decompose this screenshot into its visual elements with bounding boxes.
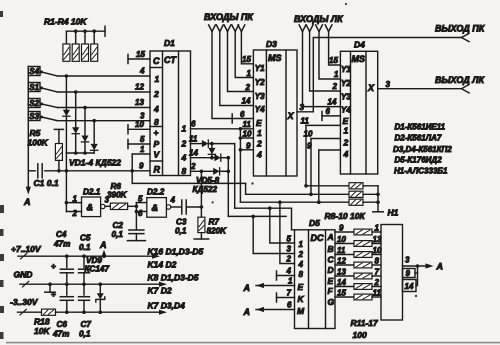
resistor R7 xyxy=(200,171,202,217)
svg-text:S1: S1 xyxy=(29,83,39,92)
wire run b xyxy=(246,193,349,195)
svg-text:0,1: 0,1 xyxy=(79,330,91,339)
resistor R3 xyxy=(84,31,86,44)
wire rail GND xyxy=(20,283,160,285)
wire D5 pin6 to node A xyxy=(256,309,295,311)
svg-text:2: 2 xyxy=(153,89,159,99)
svg-text:X: X xyxy=(287,111,295,121)
svg-text:Y1: Y1 xyxy=(255,64,265,73)
svg-text:10: 10 xyxy=(337,235,346,244)
svg-text:+: + xyxy=(51,289,56,299)
svg-text:F: F xyxy=(328,286,334,296)
svg-text:8: 8 xyxy=(299,270,304,279)
diode VD8 xyxy=(213,168,219,175)
wire vertical V1 xyxy=(227,158,229,217)
svg-text:D: D xyxy=(328,265,334,275)
svg-text:13: 13 xyxy=(135,98,144,107)
input LK line 2 xyxy=(306,25,309,32)
pin 14 box H1 xyxy=(403,280,417,292)
wire S1 row to D1 pin12 xyxy=(58,91,151,93)
svg-text:C: C xyxy=(153,56,160,66)
svg-text:K: K xyxy=(298,294,305,304)
svg-text:14: 14 xyxy=(405,282,414,291)
svg-text:10: 10 xyxy=(135,120,144,129)
switch S3 xyxy=(28,112,40,121)
switch S4 xyxy=(28,67,40,76)
svg-text:+7..10V: +7..10V xyxy=(11,244,42,254)
diode VD6 vertical xyxy=(211,144,213,148)
svg-text:G: G xyxy=(328,297,335,307)
wire diode column to D2.1 xyxy=(65,153,67,212)
svg-text:R8-10 10К: R8-10 10К xyxy=(325,211,366,221)
svg-text:1: 1 xyxy=(299,240,304,249)
diode VD9 zener xyxy=(99,284,101,293)
svg-text:A: A xyxy=(23,197,31,207)
svg-text:14: 14 xyxy=(189,149,198,158)
svg-text:6: 6 xyxy=(326,107,331,116)
capacitor C1 xyxy=(28,170,35,172)
svg-text:Y2: Y2 xyxy=(341,79,351,88)
wire D5 pin5 feed xyxy=(270,208,295,243)
svg-text:1: 1 xyxy=(182,124,187,134)
wire D5 pin3 feed xyxy=(253,216,294,253)
svg-text:Н1-АЛС333Б1: Н1-АЛС333Б1 xyxy=(394,167,448,176)
svg-text:C2: C2 xyxy=(113,221,124,230)
svg-text:4: 4 xyxy=(343,149,349,159)
svg-text:9: 9 xyxy=(406,269,411,278)
wire D1 out4 pin14 row xyxy=(191,157,215,159)
wire D4 X output pin3 to VYHOD LK xyxy=(378,88,462,90)
resistor R2 xyxy=(75,31,77,44)
svg-text:D1: D1 xyxy=(164,38,175,48)
svg-text:1: 1 xyxy=(247,69,252,78)
svg-text:6: 6 xyxy=(191,120,196,129)
op IC D3 block xyxy=(253,50,297,176)
wire R6 to D2.2 xyxy=(128,205,137,207)
input PK line 1 xyxy=(209,25,212,32)
svg-text:VD5-8: VD5-8 xyxy=(196,176,220,185)
resistor R11 xyxy=(335,231,354,233)
svg-text:0,1: 0,1 xyxy=(112,230,124,239)
wire D1 out2 pin11 row xyxy=(191,143,202,145)
pin 4 stub D5 xyxy=(277,275,295,277)
svg-text:E: E xyxy=(298,282,304,292)
svg-text:A: A xyxy=(243,307,251,317)
svg-text:1: 1 xyxy=(73,195,78,204)
svg-text:8: 8 xyxy=(375,257,380,266)
svg-text:D4: D4 xyxy=(354,40,365,50)
svg-text:1: 1 xyxy=(334,70,339,79)
svg-text:5: 5 xyxy=(140,135,145,144)
pin 15 stub D1 xyxy=(128,58,150,60)
svg-text:12: 12 xyxy=(337,257,346,266)
svg-text:5: 5 xyxy=(138,195,143,204)
svg-text:2: 2 xyxy=(245,83,251,92)
wire vertical D4 pin10 drop xyxy=(310,139,312,195)
wire run a xyxy=(306,185,349,187)
svg-text:D2.2: D2.2 xyxy=(147,188,165,197)
svg-text:+: + xyxy=(51,261,56,271)
svg-text:C3: C3 xyxy=(176,218,187,227)
svg-text:D3,D4-К561КП2: D3,D4-К561КП2 xyxy=(393,145,452,154)
wire S3 row to D1 pin3 xyxy=(58,120,151,122)
resistor R14 xyxy=(335,264,354,266)
svg-text:C7: C7 xyxy=(81,320,92,329)
svg-text:R5: R5 xyxy=(30,128,41,138)
resistor R13 xyxy=(335,254,354,256)
svg-text:4: 4 xyxy=(153,104,159,114)
resistor R15 xyxy=(335,275,354,277)
svg-text:12: 12 xyxy=(135,83,144,92)
wire D3 X output pin3 xyxy=(297,111,313,113)
capacitor C5 xyxy=(83,256,85,267)
diode VD5 xyxy=(202,140,208,147)
wire run e xyxy=(228,215,286,217)
svg-text:D1-К561ИЕ11: D1-К561ИЕ11 xyxy=(395,123,446,132)
svg-text:2: 2 xyxy=(190,162,196,171)
svg-text:8: 8 xyxy=(154,117,159,127)
svg-text:R11-17: R11-17 xyxy=(351,318,380,328)
wire D2.1 out xyxy=(105,205,110,207)
wire run d xyxy=(235,207,292,209)
svg-text:7: 7 xyxy=(375,268,380,277)
svg-text:6: 6 xyxy=(138,209,143,218)
node A down-arrow xyxy=(27,171,29,189)
resistor R10 xyxy=(349,199,363,205)
resistor R12 xyxy=(335,243,354,245)
svg-text:M: M xyxy=(297,306,305,316)
svg-text:2: 2 xyxy=(374,278,380,287)
svg-text:E: E xyxy=(256,118,262,128)
svg-text:14: 14 xyxy=(242,97,251,106)
svg-text:-3..30V: -3..30V xyxy=(10,297,39,307)
switch S2 xyxy=(28,99,40,108)
input LK line 3 xyxy=(316,25,319,32)
pin 10 stub D1 xyxy=(128,128,150,130)
svg-text:CT: CT xyxy=(164,55,177,65)
svg-text:3: 3 xyxy=(386,80,391,89)
wire D2.1 inputs xyxy=(66,202,81,204)
svg-text:11: 11 xyxy=(243,120,252,129)
svg-text:MS: MS xyxy=(268,53,282,63)
svg-text:8: 8 xyxy=(182,166,187,176)
svg-text:1: 1 xyxy=(375,224,380,233)
wire D1 out8 pin2 row xyxy=(191,170,214,172)
svg-text:C: C xyxy=(328,255,335,265)
wire diode common xyxy=(66,152,94,154)
op display H1 block xyxy=(381,225,403,321)
svg-text:КС147: КС147 xyxy=(85,265,110,274)
op gate D2.2 xyxy=(147,198,167,218)
svg-text:3: 3 xyxy=(287,245,292,254)
wire rail -3..30V with R18 xyxy=(18,311,42,313)
svg-text:E: E xyxy=(328,276,334,286)
svg-text:1: 1 xyxy=(155,74,160,84)
wire VYHOD PK from D3 xyxy=(313,38,461,112)
svg-text:C1 0.1: C1 0.1 xyxy=(34,178,59,188)
svg-text:9: 9 xyxy=(339,224,344,233)
wire run c xyxy=(240,201,349,203)
wire D1 out1 pin6 to D3 pin11 xyxy=(191,128,254,130)
wire vertical V2 xyxy=(234,144,236,209)
svg-text:2: 2 xyxy=(72,209,78,218)
svg-text:2: 2 xyxy=(181,139,187,149)
svg-text:14: 14 xyxy=(328,98,337,107)
svg-text:2: 2 xyxy=(343,138,349,148)
svg-text:5: 5 xyxy=(287,235,292,244)
svg-text:15: 15 xyxy=(242,55,251,64)
wire D3 pin9 row xyxy=(240,149,253,151)
svg-text:4: 4 xyxy=(256,150,262,160)
wire D5 pin2 feed xyxy=(280,202,295,263)
svg-text:K14 D2: K14 D2 xyxy=(148,260,177,270)
svg-text:A: A xyxy=(99,240,107,250)
capacitor C4 xyxy=(66,256,68,267)
svg-text:9: 9 xyxy=(246,141,251,150)
svg-text:K16 D1,D3-D5: K16 D1,D3-D5 xyxy=(148,247,204,257)
resistor R8 xyxy=(349,183,363,189)
wire vertical V4 xyxy=(245,183,247,194)
pin 5 stub D1 xyxy=(128,143,150,145)
switch S1 xyxy=(28,83,40,92)
op gate D2.1 xyxy=(82,197,101,217)
resistor R1 xyxy=(65,31,67,44)
resistor R5 xyxy=(55,144,62,161)
svg-text:D2-К561ЛА7: D2-К561ЛА7 xyxy=(395,134,442,143)
pin 9 box H1 xyxy=(403,269,416,278)
svg-text:4: 4 xyxy=(298,260,304,269)
wire S2 row to D1 pin13 xyxy=(58,107,151,109)
resistor R4 xyxy=(93,31,95,44)
svg-text:A: A xyxy=(243,283,251,293)
svg-text:1: 1 xyxy=(344,126,349,136)
svg-text:C4: C4 xyxy=(56,230,67,239)
terminal bar on rail xyxy=(104,26,106,36)
op IC D5 block xyxy=(295,230,336,329)
svg-text:D5: D5 xyxy=(309,218,320,228)
wire H1 pins 9 14 tie xyxy=(416,266,418,286)
svg-text:3: 3 xyxy=(300,103,305,112)
wire D1 pin1 V xyxy=(132,153,150,155)
svg-text:10K: 10K xyxy=(34,326,50,336)
svg-text:S4: S4 xyxy=(29,67,39,76)
svg-text:B: B xyxy=(328,244,334,254)
svg-text:15: 15 xyxy=(329,56,338,65)
svg-text:9: 9 xyxy=(139,162,144,171)
svg-text:11: 11 xyxy=(301,117,310,126)
capacitor C2 xyxy=(129,229,144,231)
svg-text:K7 D3,D4: K7 D3,D4 xyxy=(148,301,186,311)
svg-text:10: 10 xyxy=(304,130,313,139)
capacitor C7 xyxy=(83,284,85,295)
svg-text:D3: D3 xyxy=(266,39,277,49)
svg-text:47m: 47m xyxy=(52,330,69,339)
svg-text:C5: C5 xyxy=(80,234,91,243)
svg-text:E: E xyxy=(343,116,349,126)
svg-text:11: 11 xyxy=(189,135,198,144)
svg-text:2: 2 xyxy=(332,82,338,91)
capacitor C3 xyxy=(171,206,182,208)
input PK line 5 xyxy=(238,25,241,32)
svg-text:6: 6 xyxy=(287,301,292,310)
wire run d drop to D5 corner xyxy=(292,208,295,230)
svg-text:1: 1 xyxy=(140,145,145,154)
svg-text:15: 15 xyxy=(136,50,145,59)
svg-text:Y2: Y2 xyxy=(255,78,265,87)
svg-text:14: 14 xyxy=(337,278,346,287)
wire vertical V3 xyxy=(239,129,241,202)
svg-text:Y3: Y3 xyxy=(341,93,351,102)
svg-text:390K: 390K xyxy=(107,191,128,200)
wire vertical D4 pin9 drop xyxy=(318,150,320,202)
svg-text:Y3: Y3 xyxy=(255,92,265,101)
svg-text:ВЫХОД ЛК: ВЫХОД ЛК xyxy=(435,75,485,85)
svg-text:R7: R7 xyxy=(209,218,220,227)
resistor R16 xyxy=(335,286,354,288)
svg-text:+: + xyxy=(154,128,159,138)
wire H1 pin3 to node A xyxy=(403,265,427,267)
wire S4 row to D1 pin4 xyxy=(58,75,151,77)
wire switch common rail xyxy=(27,67,29,171)
diode VD4 xyxy=(93,121,95,144)
svg-text:4: 4 xyxy=(139,67,145,76)
svg-text:D2.1: D2.1 xyxy=(83,188,101,197)
svg-text:КД522: КД522 xyxy=(193,185,218,194)
op IC D4 block xyxy=(340,51,377,174)
svg-text:7: 7 xyxy=(287,289,292,298)
wire D3 pin10 row xyxy=(240,137,253,139)
svg-text:13: 13 xyxy=(337,268,346,277)
svg-text:MS: MS xyxy=(352,54,366,64)
svg-text:A: A xyxy=(327,232,334,242)
svg-text:ВХОДЫ ЛК: ВХОДЫ ЛК xyxy=(294,14,344,24)
svg-text:P: P xyxy=(154,139,160,149)
svg-text:D5-К176ИД2: D5-К176ИД2 xyxy=(395,156,443,165)
svg-text:&: & xyxy=(87,203,94,213)
svg-text:X: X xyxy=(367,83,375,93)
scan bottom edge xyxy=(6,342,500,344)
svg-text:15: 15 xyxy=(337,289,346,298)
svg-text:H1: H1 xyxy=(388,208,399,218)
svg-text:100K: 100K xyxy=(28,138,49,148)
svg-text:GND: GND xyxy=(14,270,33,280)
svg-text:VD1-4 КД522: VD1-4 КД522 xyxy=(69,158,121,168)
svg-text:ВЫХОД ПК: ВЫХОД ПК xyxy=(435,24,486,34)
diode VD3 xyxy=(84,108,86,136)
svg-text:S3: S3 xyxy=(29,112,39,121)
svg-text:C6: C6 xyxy=(57,320,68,329)
svg-text:4: 4 xyxy=(170,196,176,205)
tick bar D3 pin6 xyxy=(231,114,233,123)
svg-text:R: R xyxy=(154,165,161,175)
svg-text:Y4: Y4 xyxy=(255,105,265,114)
wire vertical D4 pin11 drop xyxy=(305,125,307,185)
svg-text:820K: 820K xyxy=(207,227,228,236)
svg-text:&: & xyxy=(152,203,159,213)
input LK line 1 xyxy=(299,25,302,32)
tick bar D4 pin6 xyxy=(322,115,340,117)
op IC D1 block xyxy=(150,51,191,176)
svg-text:A: A xyxy=(436,262,444,272)
svg-text:Y4: Y4 xyxy=(341,106,351,115)
diode VD7 xyxy=(214,154,220,161)
node A up-arrow xyxy=(103,253,105,256)
input PK line 2 xyxy=(216,25,219,32)
capacitor C6 xyxy=(66,284,68,295)
svg-text:0.1: 0.1 xyxy=(79,243,91,252)
svg-text:0,1: 0,1 xyxy=(175,227,187,236)
diode VD1 xyxy=(65,76,67,110)
wire rail +7..10V xyxy=(18,255,153,257)
svg-text:K7 D2: K7 D2 xyxy=(148,286,172,296)
diode VD2 xyxy=(75,92,77,127)
svg-text:R18: R18 xyxy=(34,317,50,327)
svg-text:2: 2 xyxy=(256,139,262,149)
svg-text:11: 11 xyxy=(373,289,382,298)
svg-text:S2: S2 xyxy=(29,99,39,108)
wire R8-10 common to H1 terminal xyxy=(377,186,379,212)
svg-text:1: 1 xyxy=(257,128,262,138)
svg-text:R1-R4 10K: R1-R4 10K xyxy=(44,17,87,27)
resistor R9 xyxy=(349,191,363,197)
ground mark xyxy=(49,284,51,292)
svg-text:10: 10 xyxy=(243,130,252,139)
svg-text:2: 2 xyxy=(286,255,292,264)
svg-text:ВХОДЫ ПК: ВХОДЫ ПК xyxy=(204,12,254,22)
input PK line 3 xyxy=(224,25,227,32)
svg-text:11: 11 xyxy=(337,246,346,255)
wire D5 pin1 to node A xyxy=(256,285,295,287)
pin 7 stub D5 xyxy=(277,297,295,299)
svg-text:100: 100 xyxy=(353,330,367,340)
svg-text:1: 1 xyxy=(288,277,293,286)
input LK line 4 xyxy=(325,25,328,32)
terminal bar R5 top xyxy=(54,128,63,130)
svg-text:DC: DC xyxy=(311,233,324,243)
svg-text:6: 6 xyxy=(240,110,245,119)
svg-text:3: 3 xyxy=(405,256,410,265)
resistor R6 xyxy=(110,203,127,209)
svg-text:4: 4 xyxy=(181,153,187,163)
svg-text:K8 D1,D3-D5: K8 D1,D3-D5 xyxy=(148,273,199,283)
wire D1 pin9 reset net under D1 xyxy=(132,182,245,184)
wire R1-R4 top rail xyxy=(66,30,105,32)
svg-text:47m: 47m xyxy=(53,240,70,249)
svg-text:Y1: Y1 xyxy=(341,65,351,74)
resistor R17 xyxy=(335,296,354,298)
svg-text:2: 2 xyxy=(298,250,304,259)
svg-text:4: 4 xyxy=(286,267,292,276)
input PK line 4 xyxy=(232,25,235,32)
